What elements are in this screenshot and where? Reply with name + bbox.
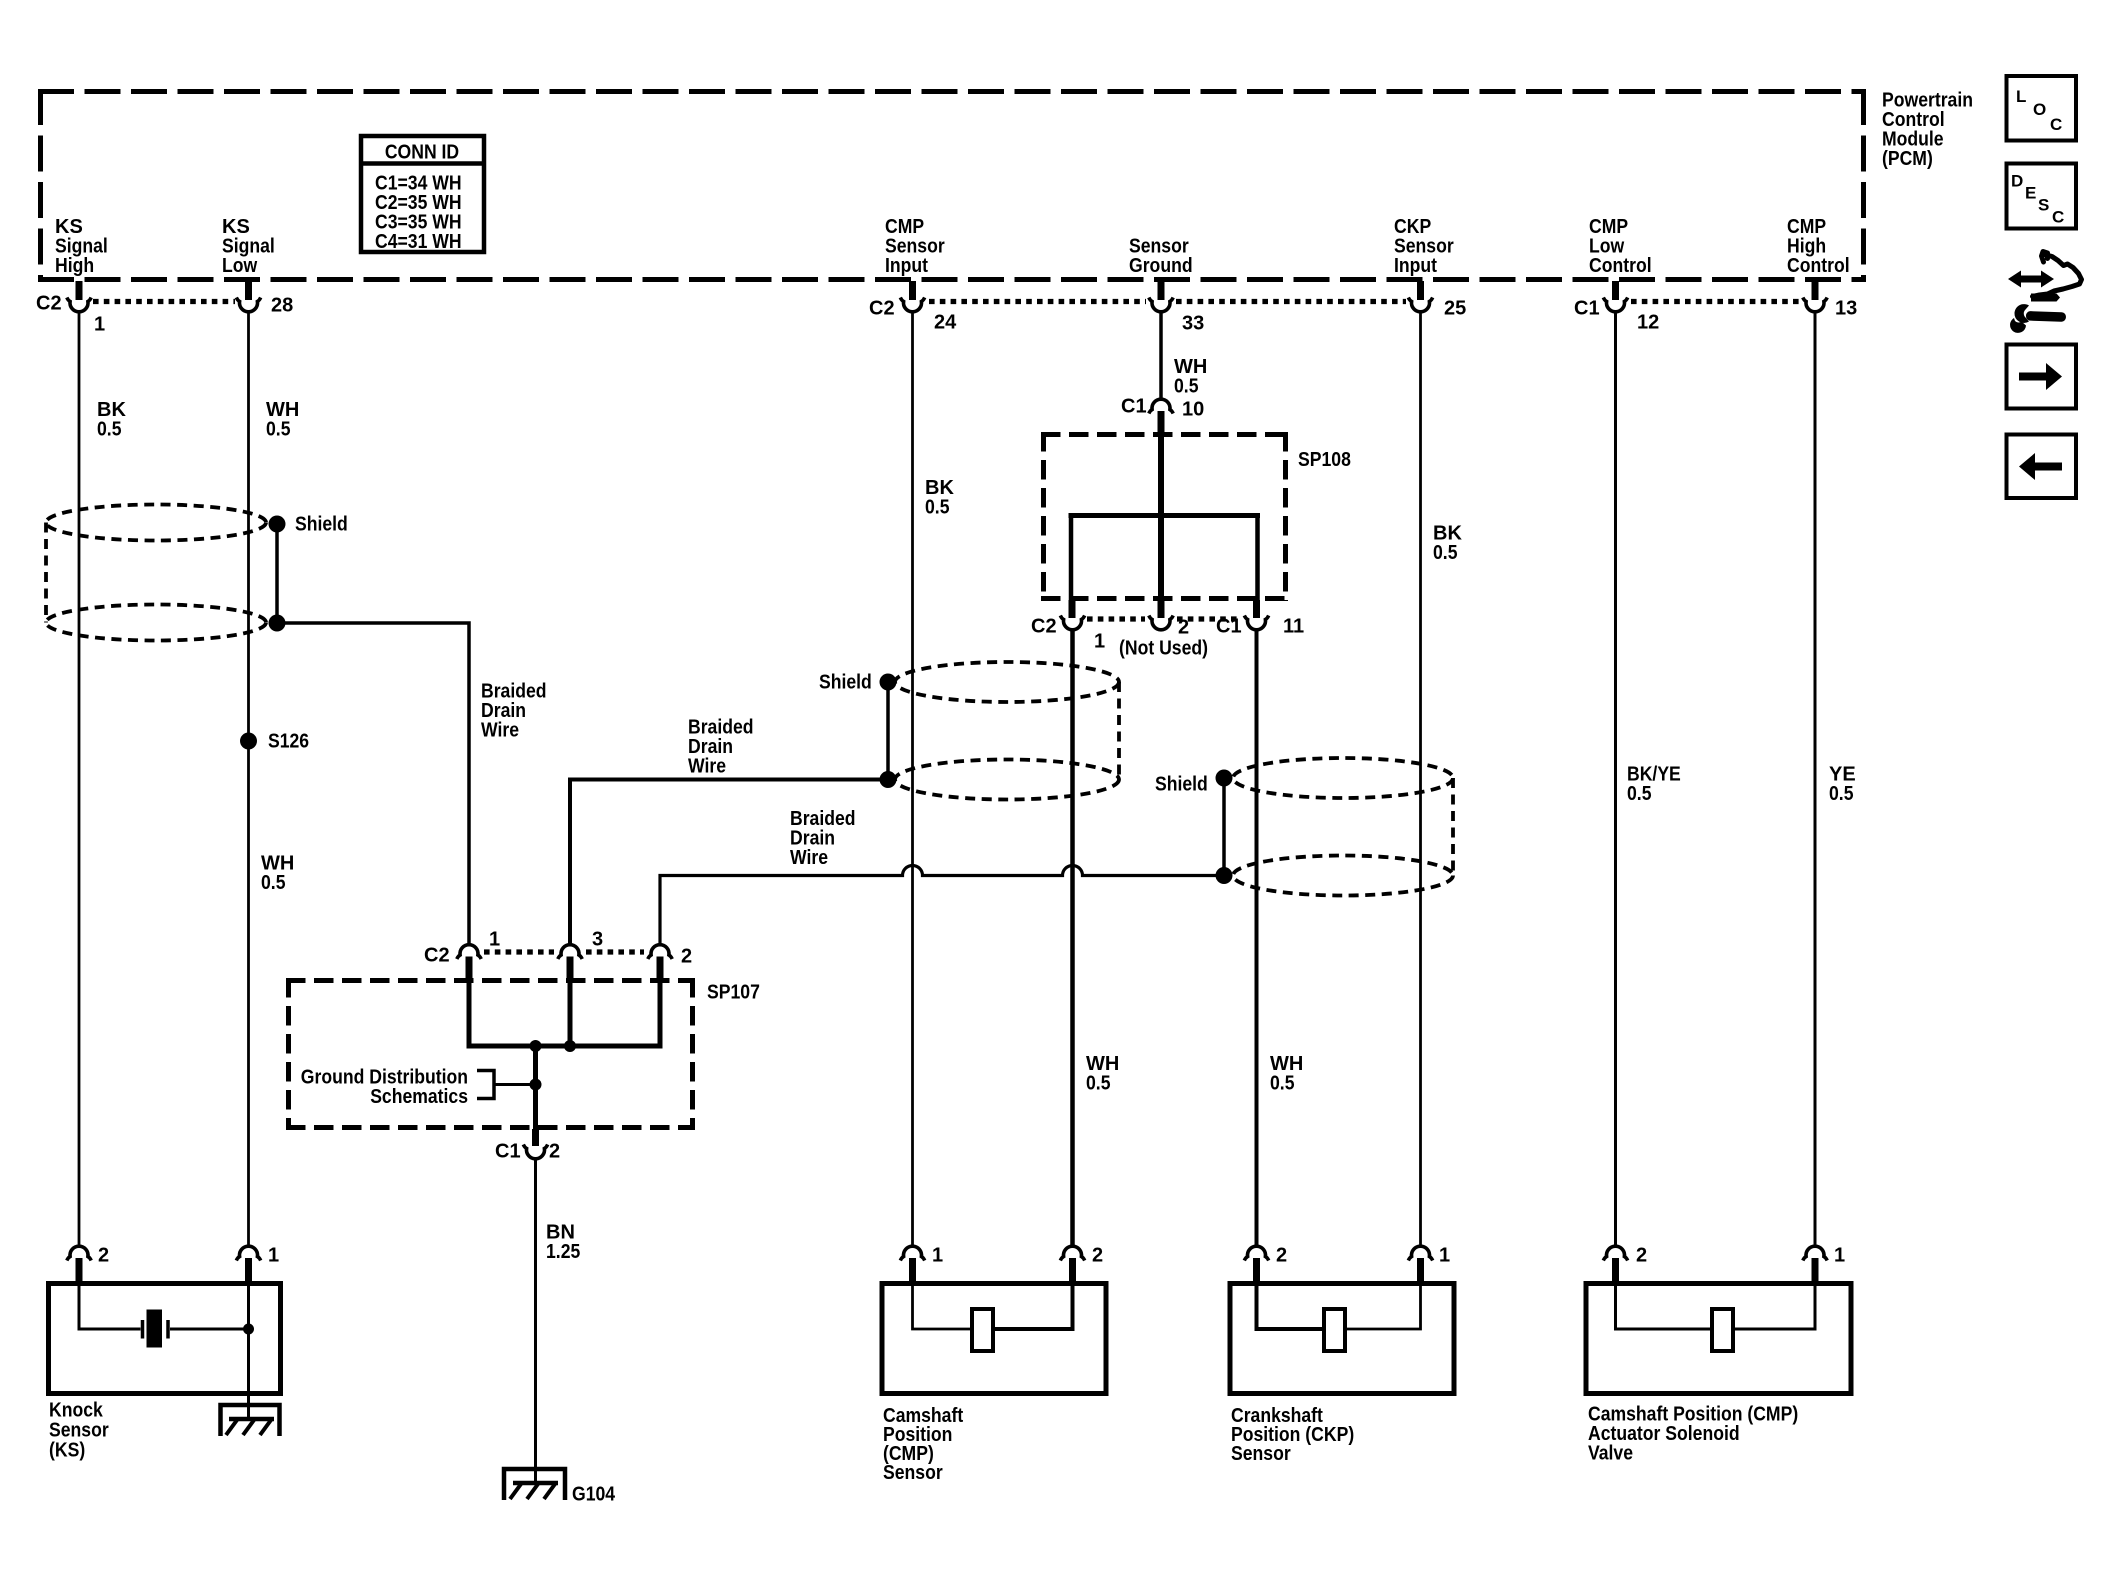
icon LOC letters bbox=[2016, 87, 2062, 134]
svg-text:0.5: 0.5 bbox=[1270, 1073, 1295, 1095]
SP107 pin C2-1 stub bbox=[466, 957, 473, 981]
icon wrench bbox=[2014, 304, 2029, 323]
SP108 pin C2-1 stub bbox=[1069, 600, 1076, 618]
SP108 leg to pin 2 bbox=[1158, 516, 1164, 601]
wire label BK 0.5 (CKP) bbox=[1433, 523, 1462, 565]
SP107 pin 3 terminal cup bbox=[558, 945, 582, 959]
svg-text:2: 2 bbox=[549, 1141, 560, 1163]
SP108 pin C1-11 terminal cup bbox=[1244, 616, 1268, 630]
pin function label: CKP Sensor Input bbox=[1394, 216, 1454, 277]
svg-text:O: O bbox=[2033, 100, 2046, 119]
wire CMP sensor input BK 0.5 (pin 24 to CMP sensor pin 1) bbox=[911, 313, 914, 1245]
svg-text:1: 1 bbox=[1439, 1245, 1450, 1267]
svg-text:C2: C2 bbox=[424, 945, 450, 967]
PCM module dashed box (Powertrain Control Module) bbox=[38, 89, 1866, 282]
CMP actuator internal wire from pin 2 bbox=[1616, 1284, 1711, 1329]
SP107 junction dot (pin 3 leg) bbox=[564, 1040, 576, 1052]
KS shield link wire bbox=[275, 524, 279, 623]
CMP actuator pin 1 terminal cup bbox=[1803, 1246, 1827, 1260]
wire Sensor Ground WH 0.5 (pin 33 to C1-10) bbox=[1159, 313, 1163, 398]
knock sensor pin 2 stub bbox=[76, 1258, 83, 1284]
svg-text:28: 28 bbox=[271, 295, 293, 317]
knock sensor internal junction dot bbox=[243, 1324, 254, 1335]
SP107 pin 3 stub bbox=[567, 957, 574, 981]
icon DESC box bbox=[2007, 164, 2077, 229]
CMP sensor pin 1 terminal cup bbox=[900, 1246, 924, 1260]
svg-text:Input: Input bbox=[885, 255, 928, 277]
PCM pin C2-24 terminal cup bbox=[900, 298, 924, 312]
Ground Distribution link line bbox=[494, 1083, 536, 1086]
svg-text:(Not Used): (Not Used) bbox=[1119, 638, 1208, 660]
PCM pin 33 terminal cup bbox=[1149, 298, 1173, 312]
wire label WH 0.5 (CKP pin 2) bbox=[1270, 1053, 1303, 1095]
PCM pin 25 terminal cup bbox=[1408, 298, 1432, 312]
knock sensor internal ground wire bbox=[247, 1284, 250, 1419]
label Braided Drain Wire 3 bbox=[790, 808, 856, 869]
svg-text:C: C bbox=[2052, 208, 2064, 227]
SP108 pin C1-11 stub bbox=[1253, 600, 1260, 618]
svg-text:24: 24 bbox=[934, 312, 957, 334]
svg-text:0.5: 0.5 bbox=[1174, 376, 1199, 398]
label Braided Drain Wire 1 bbox=[481, 681, 547, 742]
CKP sensor pin 1 stub bbox=[1417, 1258, 1424, 1284]
svg-text:G104: G104 bbox=[572, 1484, 616, 1506]
svg-text:C: C bbox=[2050, 115, 2062, 134]
svg-text:C1: C1 bbox=[1121, 396, 1147, 418]
CMP shield node dot (upper) bbox=[880, 674, 897, 691]
SP107 output wire down bbox=[533, 1046, 538, 1129]
PCM pin C1-12 stub bbox=[1612, 281, 1619, 300]
CMP sensor pin 2 stub bbox=[1069, 1258, 1076, 1284]
SP108 internal center wire bbox=[1158, 434, 1164, 516]
icon car double arrow bbox=[2008, 271, 2054, 288]
wire label WH 0.5 (CMP pin 2) bbox=[1086, 1053, 1119, 1095]
PCM pin 13 stub bbox=[1812, 281, 1819, 300]
svg-text:Sensor: Sensor bbox=[1231, 1443, 1291, 1465]
svg-text:Low: Low bbox=[222, 255, 258, 277]
PCM connector dotted line C2 (pin 24 to pin 25) bbox=[929, 299, 1406, 304]
svg-text:2: 2 bbox=[1178, 617, 1189, 639]
svg-text:Knock: Knock bbox=[49, 1400, 104, 1422]
SP107 pin 2 stub bbox=[657, 957, 664, 981]
SP107 junction dot (output) bbox=[530, 1040, 542, 1052]
CMP sensor box bbox=[882, 1284, 1106, 1394]
piezo element plates bbox=[141, 1320, 145, 1339]
wire CMP High Control YE 0.5 (pin 13 to actuator pin 1) bbox=[1814, 313, 1817, 1245]
connector C1-10 stub into SP108 bbox=[1158, 411, 1165, 434]
icon back arrow box bbox=[2007, 435, 2077, 499]
label Knock Sensor (KS) bbox=[49, 1400, 109, 1462]
CMP actuator pin 2 stub bbox=[1612, 1258, 1619, 1284]
svg-text:(KS): (KS) bbox=[49, 1440, 85, 1462]
SP107 leg from pin 1 bbox=[467, 980, 472, 1046]
svg-text:(PCM): (PCM) bbox=[1882, 148, 1933, 170]
wire WH 0.5 (SP108 C1-11 to CKP sensor pin 2) bbox=[1255, 631, 1259, 1245]
CMP sensor pin 2 terminal cup bbox=[1060, 1246, 1084, 1260]
icon car outline bbox=[2033, 252, 2082, 297]
SP107 connector dotted line bbox=[484, 949, 644, 954]
knock sensor internal wire from pin 2 bbox=[79, 1284, 141, 1329]
svg-text:2: 2 bbox=[681, 946, 692, 968]
svg-text:Input: Input bbox=[1394, 255, 1437, 277]
PCM pin 25 stub bbox=[1417, 281, 1424, 300]
KS shield node dot (lower) bbox=[269, 615, 286, 632]
svg-text:1: 1 bbox=[489, 929, 500, 951]
icon next arrow bbox=[2019, 363, 2062, 390]
CKP sensor pin 2 stub bbox=[1253, 1258, 1260, 1284]
icon car rocker bar bbox=[2031, 294, 2060, 302]
svg-text:0.5: 0.5 bbox=[1433, 542, 1458, 564]
knock sensor box bbox=[49, 1284, 281, 1394]
pin function label: CMP High Control bbox=[1787, 216, 1850, 277]
svg-text:2: 2 bbox=[1276, 1245, 1287, 1267]
SP108 connector dotted line bbox=[1087, 616, 1240, 621]
svg-text:25: 25 bbox=[1444, 298, 1466, 320]
svg-text:1: 1 bbox=[932, 1245, 943, 1267]
pin function label: KS Signal Low bbox=[222, 216, 275, 277]
CMP shield node dot (lower) bbox=[880, 771, 897, 788]
Ground Distribution bracket bbox=[477, 1071, 494, 1099]
CKP sensor element bbox=[1324, 1309, 1345, 1351]
icon LOC box bbox=[2007, 76, 2077, 141]
svg-text:C2: C2 bbox=[869, 298, 895, 320]
svg-text:S126: S126 bbox=[268, 731, 309, 753]
wire label WH 0.5 (sensor ground) bbox=[1174, 356, 1207, 398]
svg-text:C1: C1 bbox=[1574, 298, 1600, 320]
CKP sensor internal wire to pin 1 bbox=[1347, 1284, 1421, 1329]
svg-text:SP107: SP107 bbox=[707, 982, 760, 1004]
svg-text:SP108: SP108 bbox=[1298, 449, 1351, 471]
PCM label text bbox=[1882, 90, 1973, 171]
svg-text:0.5: 0.5 bbox=[925, 497, 950, 519]
svg-text:10: 10 bbox=[1182, 399, 1204, 421]
splice S126 bbox=[240, 733, 257, 750]
svg-text:13: 13 bbox=[1835, 298, 1857, 320]
svg-text:Schematics: Schematics bbox=[370, 1086, 468, 1108]
wire BN 1.25 (C1-2 to G104) bbox=[534, 1160, 537, 1483]
svg-text:0.5: 0.5 bbox=[1829, 783, 1854, 805]
SP107 pin C2-1 terminal cup bbox=[457, 945, 481, 959]
CMP shield link wire bbox=[886, 682, 890, 780]
svg-text:2: 2 bbox=[1092, 1245, 1103, 1267]
CMP sensor internal wire from pin 1 bbox=[913, 1284, 972, 1329]
Ground Distribution Schematics label bbox=[301, 1067, 468, 1109]
svg-text:C1: C1 bbox=[1216, 616, 1242, 638]
svg-text:Wire: Wire bbox=[688, 756, 726, 778]
CMP actuator pin 1 stub bbox=[1812, 1258, 1819, 1284]
svg-text:Valve: Valve bbox=[1588, 1443, 1633, 1465]
wire label YE 0.5 bbox=[1829, 764, 1856, 806]
CKP sensor internal wire from pin 2 bbox=[1257, 1284, 1323, 1329]
PCM pin C2-24 stub bbox=[909, 281, 916, 300]
SP108 pin C2-1 terminal cup bbox=[1060, 616, 1084, 630]
svg-text:2: 2 bbox=[1636, 1245, 1647, 1267]
wire label BK 0.5 (CMP) bbox=[925, 477, 954, 519]
svg-text:Shield: Shield bbox=[1155, 774, 1208, 796]
svg-text:1: 1 bbox=[94, 314, 105, 336]
braided drain wire 1 (KS shield to SP107 C2-1) bbox=[277, 623, 469, 944]
wire label BN 1.25 bbox=[546, 1222, 580, 1264]
knock sensor internal wire to pin 1 bbox=[170, 1328, 249, 1331]
connector C1-2 terminal cup bbox=[523, 1145, 547, 1159]
wire label WH 0.5 (upper) bbox=[266, 399, 299, 441]
label Crankshaft Position (CKP) Sensor bbox=[1231, 1405, 1354, 1465]
icon DESC letters bbox=[2011, 172, 2064, 227]
svg-text:C2: C2 bbox=[36, 293, 62, 315]
svg-text:Ground: Ground bbox=[1129, 255, 1193, 277]
CKP shield node dot (lower) bbox=[1216, 867, 1233, 884]
CMP actuator solenoid valve box bbox=[1586, 1284, 1851, 1394]
knock sensor case ground symbol bbox=[221, 1405, 280, 1436]
PCM pin C2-1 terminal cup bbox=[67, 298, 91, 312]
svg-text:Sensor: Sensor bbox=[883, 1462, 943, 1484]
pin function label: KS Signal High bbox=[55, 216, 108, 277]
braided drain wire 3 (CKP shield to SP107 pin 2, hops over two wires) bbox=[660, 866, 1224, 944]
PCM connector dotted line C1 (pin 12 to pin 13) bbox=[1631, 299, 1800, 304]
svg-text:0.5: 0.5 bbox=[1627, 783, 1652, 805]
svg-text:High: High bbox=[55, 255, 94, 277]
svg-text:1: 1 bbox=[1094, 631, 1105, 653]
PCM pin 13 terminal cup bbox=[1803, 298, 1827, 312]
svg-text:0.5: 0.5 bbox=[97, 419, 122, 441]
SP108 internal bus bar bbox=[1069, 513, 1261, 518]
svg-text:Sensor: Sensor bbox=[49, 1420, 109, 1442]
svg-text:1: 1 bbox=[268, 1245, 279, 1267]
CMP sensor element bbox=[972, 1309, 993, 1351]
PCM pin 33 stub bbox=[1158, 281, 1165, 300]
SP108 leg to pin C2-1 bbox=[1069, 513, 1074, 600]
CKP shield node dot (upper) bbox=[1216, 770, 1233, 787]
svg-text:C2: C2 bbox=[1031, 616, 1057, 638]
KS shield node dot (upper) bbox=[269, 516, 286, 533]
SP107 pin 2 terminal cup bbox=[648, 945, 672, 959]
pin function label: CMP Low Control bbox=[1589, 216, 1652, 277]
svg-text:2: 2 bbox=[98, 1245, 109, 1267]
CKP sensor pin 2 terminal cup bbox=[1244, 1246, 1268, 1260]
SP107 internal bus bar bbox=[467, 1044, 663, 1049]
svg-text:3: 3 bbox=[592, 929, 603, 951]
splice pack SP108 dashed box bbox=[1041, 432, 1288, 601]
CKP shield cylinder (dashed ellipses) bbox=[1233, 758, 1453, 896]
svg-text:Control: Control bbox=[1787, 255, 1850, 277]
SP108 leg to pin C1-11 bbox=[1255, 513, 1260, 600]
svg-text:Shield: Shield bbox=[819, 672, 872, 694]
connector C1-10 terminal cup bbox=[1149, 399, 1173, 413]
svg-text:12: 12 bbox=[1637, 312, 1659, 334]
icon next arrow box bbox=[2007, 345, 2077, 409]
svg-text:0.5: 0.5 bbox=[1086, 1073, 1111, 1095]
wire WH 0.5 (SP108 C2-1 to CMP sensor pin 2) bbox=[1070, 631, 1075, 1245]
svg-text:0.5: 0.5 bbox=[261, 872, 286, 894]
knock sensor pin 2 terminal cup bbox=[67, 1246, 91, 1260]
PCM pin 28 stub bbox=[245, 281, 252, 300]
CKP sensor pin 1 terminal cup bbox=[1408, 1246, 1432, 1260]
wire KS Signal High BK 0.5 (pin 1 to knock sensor pin 2) bbox=[78, 313, 81, 1245]
splice pack SP107 dashed box bbox=[286, 978, 695, 1130]
svg-text:D: D bbox=[2011, 172, 2023, 191]
svg-text:1.25: 1.25 bbox=[546, 1241, 580, 1263]
wire label WH 0.5 (lower) bbox=[261, 853, 294, 895]
svg-text:Control: Control bbox=[1589, 255, 1652, 277]
svg-text:Wire: Wire bbox=[481, 720, 519, 742]
svg-text:CONN ID: CONN ID bbox=[385, 142, 459, 164]
wire CMP Low Control BK/YE 0.5 (pin 12 to actuator pin 2) bbox=[1614, 313, 1617, 1245]
wire label BK/YE 0.5 bbox=[1627, 764, 1681, 806]
PCM connector dotted line C2 (pin 1 to pin 28) bbox=[93, 299, 235, 304]
label Camshaft Position (CMP) Sensor bbox=[883, 1405, 963, 1484]
wire label BK 0.5 bbox=[97, 399, 126, 441]
CMP sensor internal wire to pin 2 bbox=[995, 1284, 1073, 1329]
svg-text:E: E bbox=[2025, 184, 2036, 203]
connector C1-2 stub bbox=[532, 1129, 539, 1146]
CONN ID table bbox=[361, 136, 484, 253]
SP107 leg from pin 3 bbox=[568, 980, 573, 1046]
icon back arrow bbox=[2019, 453, 2062, 480]
SP107 leg from pin 2 bbox=[658, 980, 663, 1046]
svg-text:L: L bbox=[2016, 87, 2026, 106]
svg-text:1: 1 bbox=[1834, 1245, 1845, 1267]
svg-text:0.5: 0.5 bbox=[266, 419, 291, 441]
SP108 pin 2 stub bbox=[1158, 600, 1165, 618]
svg-text:C4=31 WH: C4=31 WH bbox=[375, 231, 462, 253]
wire KS Signal Low WH 0.5 (pin 28 to knock sensor pin 1) bbox=[247, 313, 250, 1245]
CMP actuator pin 2 terminal cup bbox=[1603, 1246, 1627, 1260]
CMP actuator solenoid element bbox=[1712, 1309, 1733, 1351]
CMP shield cylinder (dashed ellipses) bbox=[895, 662, 1119, 800]
svg-text:33: 33 bbox=[1182, 313, 1204, 335]
PCM pin 28 terminal cup bbox=[236, 298, 260, 312]
CKP shield link wire bbox=[1222, 778, 1226, 876]
PCM pin C1-12 terminal cup bbox=[1603, 298, 1627, 312]
svg-text:11: 11 bbox=[1283, 616, 1304, 638]
CMP actuator internal wire to pin 1 bbox=[1735, 1284, 1815, 1329]
ground G104 symbol bbox=[504, 1469, 565, 1500]
svg-text:S: S bbox=[2038, 196, 2049, 215]
piezo element crystal bbox=[147, 1310, 163, 1348]
svg-text:Wire: Wire bbox=[790, 847, 828, 869]
svg-text:Shield: Shield bbox=[295, 514, 348, 536]
CKP sensor box bbox=[1230, 1284, 1454, 1394]
knock sensor pin 1 stub bbox=[245, 1258, 252, 1284]
KS shield cylinder (dashed ellipses around KS wires) bbox=[46, 505, 266, 641]
pin function label: CMP Sensor Input bbox=[885, 216, 945, 277]
PCM pin C2-1 stub bbox=[76, 281, 83, 300]
knock sensor pin 1 terminal cup bbox=[236, 1246, 260, 1260]
svg-text:C1: C1 bbox=[495, 1141, 521, 1163]
pin function label: Sensor Ground bbox=[1129, 236, 1193, 278]
CMP sensor pin 1 stub bbox=[909, 1258, 916, 1284]
label Braided Drain Wire 2 bbox=[688, 717, 754, 778]
label Camshaft Position (CMP) Actuator Solenoid Valve bbox=[1588, 1404, 1798, 1465]
junction dot on output wire bbox=[530, 1079, 542, 1091]
SP108 pin 2 terminal cup bbox=[1149, 616, 1173, 630]
braided drain wire 2 (CMP shield to SP107 pin 3) bbox=[570, 780, 888, 944]
wire CKP sensor input BK 0.5 (pin 25 to CKP sensor pin 1) bbox=[1419, 313, 1422, 1245]
